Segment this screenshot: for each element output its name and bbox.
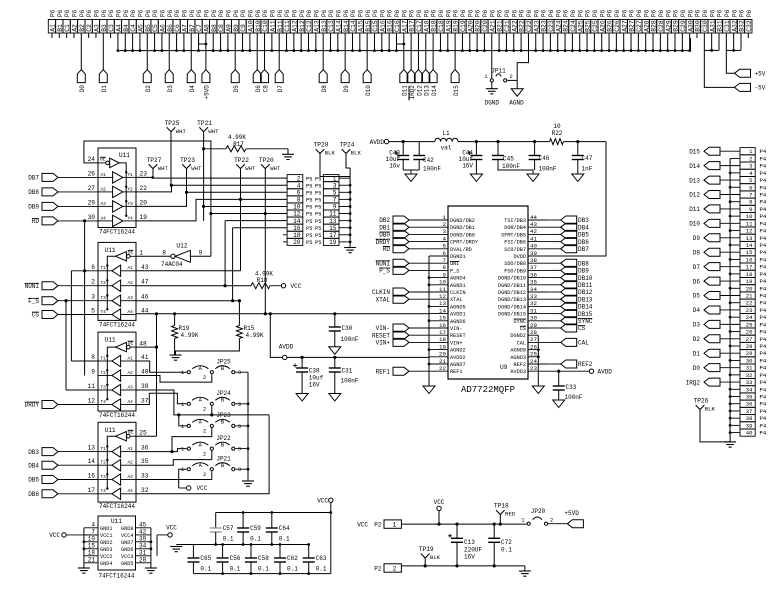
wire AVDD1 branch	[269, 312, 283, 357]
svg-text:P5: P5	[306, 176, 312, 182]
ground AGND (analog)	[509, 80, 524, 106]
svg-text:R19: R19	[179, 325, 190, 332]
power VCC right of U11	[166, 525, 177, 538]
svg-text:42: 42	[530, 228, 537, 235]
svg-text:9: 9	[91, 369, 95, 376]
svg-text:0.1: 0.1	[287, 566, 298, 573]
svg-text:D6: D6	[255, 85, 262, 93]
svg-text:AVDD1: AVDD1	[450, 312, 466, 318]
svg-text:REF1: REF1	[376, 368, 391, 375]
wire out22 to P5 pin4	[136, 132, 287, 192]
svg-text:27: 27	[530, 336, 537, 343]
svg-text:SYNC: SYNC	[514, 319, 526, 325]
capacitor C62 0.1	[274, 543, 298, 574]
ground at R19	[170, 355, 182, 360]
svg-text:AGND2: AGND2	[450, 348, 466, 354]
power VCC above rail	[434, 499, 445, 526]
svg-text:P5: P5	[315, 205, 321, 211]
svg-text:P5: P5	[315, 226, 321, 232]
svg-text:WHT: WHT	[176, 128, 187, 135]
wire pin 49 to flag D11	[403, 38, 405, 70]
svg-text:43: 43	[141, 264, 149, 271]
ground at R17	[282, 149, 294, 160]
resistor R19 4.99K pulldown	[172, 312, 199, 355]
jumper JP24	[181, 390, 241, 413]
capacitor C58 0.1	[245, 543, 269, 574]
svg-text:P6: P6	[585, 9, 592, 17]
buffer U11 block2 74FCT16244	[91, 242, 148, 328]
svg-text:U12: U12	[176, 243, 187, 250]
svg-text:P6: P6	[599, 9, 606, 17]
svg-text:4: 4	[443, 235, 447, 242]
svg-text:P6: P6	[687, 9, 694, 17]
svg-text:VCC: VCC	[197, 485, 208, 492]
svg-text:45: 45	[139, 522, 147, 529]
svg-text:C65: C65	[200, 555, 211, 562]
svg-text:8: 8	[749, 199, 752, 206]
ground at U11 right	[145, 568, 157, 573]
wire pin 14 to flag D2	[146, 38, 148, 70]
flag XTAL at U9 pin 12	[376, 295, 429, 303]
svg-text:13: 13	[746, 235, 753, 242]
svg-text:22: 22	[439, 365, 446, 372]
svg-text:P6: P6	[643, 9, 650, 17]
svg-text:P6: P6	[233, 9, 240, 17]
wire GND pins left	[83, 528, 86, 568]
svg-text:5: 5	[91, 308, 95, 315]
flag P_S at U9 pin 8	[379, 266, 429, 274]
flag +5VD	[564, 510, 583, 528]
resistor R15 4.99K pulldown	[176, 299, 264, 355]
ground under U9 right	[532, 386, 544, 394]
wire pin 44 to flag D10	[366, 38, 368, 70]
power VCC left of U11	[49, 532, 98, 539]
svg-text:AGND6: AGND6	[450, 319, 466, 325]
svg-text:44: 44	[530, 214, 537, 221]
svg-text:BLK: BLK	[430, 554, 441, 561]
svg-text:AVDD2: AVDD2	[450, 355, 466, 361]
capacitor C57 0.1	[210, 513, 234, 545]
svg-text:P6: P6	[321, 9, 328, 17]
flag DB5 input	[28, 476, 98, 484]
ground at C45/C46	[527, 174, 539, 182]
svg-text:P6: P6	[746, 9, 753, 17]
svg-text:P6: P6	[160, 9, 167, 17]
svg-text:11: 11	[746, 220, 753, 227]
svg-text:DB8: DB8	[578, 260, 589, 267]
svg-text:74FCT16244: 74FCT16244	[99, 503, 135, 510]
overline of IRQ2 label	[408, 86, 410, 101]
svg-text:P4: P4	[760, 343, 767, 350]
svg-text:TP21: TP21	[197, 120, 212, 127]
flag DB1 at U9 pin 2	[379, 223, 429, 231]
svg-text:3: 3	[238, 369, 241, 376]
svg-text:2: 2	[443, 221, 447, 228]
flag C8	[261, 70, 270, 93]
flag DB6 at U9 pin 41	[547, 238, 589, 246]
svg-text:P6: P6	[401, 9, 408, 17]
svg-text:P6: P6	[196, 9, 203, 17]
svg-text:P6: P6	[343, 9, 350, 17]
capacitor C45 100nF	[492, 140, 533, 174]
svg-text:P4: P4	[760, 314, 767, 321]
svg-text:NUNI: NUNI	[25, 283, 39, 290]
flag D3 at P4 pin 25	[693, 320, 740, 328]
svg-text:U11: U11	[105, 427, 116, 434]
flag DRDY at U9 pin 4	[376, 238, 429, 246]
svg-text:P6: P6	[306, 9, 313, 17]
svg-text:100nF: 100nF	[502, 163, 520, 170]
svg-text:30: 30	[88, 214, 96, 221]
svg-text:P6: P6	[218, 9, 225, 17]
svg-text:DB9: DB9	[28, 204, 39, 211]
svg-text:32: 32	[530, 300, 537, 307]
wire decoupling mid bus	[176, 543, 309, 546]
wire -5V pins	[704, 38, 734, 87]
wire filter mid	[458, 141, 550, 143]
svg-text:30: 30	[530, 315, 537, 322]
svg-text:P4: P4	[760, 213, 767, 220]
svg-text:DB15: DB15	[578, 311, 593, 318]
svg-text:AGND: AGND	[509, 100, 524, 107]
svg-text:P6: P6	[299, 9, 306, 17]
svg-text:9: 9	[749, 206, 752, 213]
svg-text:P4: P4	[760, 365, 767, 372]
ground at jumper bus	[242, 481, 254, 486]
flag DB7 at U9 pin 40	[547, 245, 589, 253]
svg-text:37: 37	[530, 264, 537, 271]
svg-text:P5: P5	[315, 198, 321, 204]
svg-text:17: 17	[439, 329, 446, 336]
wire F_S fanout to block3 pin11	[64, 299, 98, 390]
capacitor C31 100nF	[329, 356, 359, 401]
svg-text:RD: RD	[383, 246, 391, 253]
wire pin47 net to P5 pin14	[224, 221, 288, 288]
wire filter out to DVDD	[547, 142, 606, 256]
wire pin 53 to flag D14	[432, 38, 434, 70]
test point TP28 BLK	[314, 142, 336, 157]
svg-text:38: 38	[141, 383, 149, 390]
connector P5 (2x10 header)	[287, 175, 339, 246]
svg-text:24: 24	[530, 358, 537, 365]
svg-text:D8: D8	[693, 249, 701, 256]
svg-text:P6: P6	[50, 9, 57, 17]
svg-text:JP25: JP25	[216, 358, 231, 365]
svg-text:GND1: GND1	[100, 526, 112, 532]
svg-text:P4: P4	[760, 184, 767, 191]
svg-text:3: 3	[238, 466, 241, 473]
svg-text:10: 10	[439, 279, 446, 286]
svg-text:P6: P6	[130, 9, 137, 17]
svg-text:P6: P6	[665, 9, 672, 17]
svg-text:D4: D4	[693, 307, 701, 314]
svg-text:22: 22	[746, 300, 753, 307]
wire out40 to JP25 pin2	[136, 374, 212, 382]
svg-text:GND5: GND5	[121, 561, 133, 567]
svg-text:40: 40	[746, 430, 753, 437]
svg-text:D5: D5	[693, 293, 701, 300]
svg-text:C45: C45	[503, 155, 514, 162]
svg-text:16v: 16v	[389, 162, 400, 169]
flag DB8 at U9 pin 38	[547, 259, 589, 267]
svg-text:40: 40	[530, 243, 537, 250]
capacitor C38 10uf 16V	[293, 356, 324, 401]
svg-text:P6: P6	[489, 9, 496, 17]
svg-text:BLK: BLK	[325, 150, 336, 157]
wire jumper pin3 bus to ground	[235, 372, 249, 481]
power VCC at jumpers	[179, 485, 208, 492]
svg-text:P4: P4	[760, 408, 767, 415]
svg-text:D14: D14	[689, 163, 700, 170]
svg-text:+5VD: +5VD	[204, 85, 211, 100]
svg-text:R15: R15	[244, 325, 255, 332]
svg-text:P6: P6	[607, 9, 614, 17]
svg-text:P6: P6	[387, 9, 394, 17]
svg-text:FSI/DB6: FSI/DB6	[504, 240, 526, 246]
svg-text:P6: P6	[357, 9, 364, 17]
flag D1	[99, 70, 108, 93]
test point TP24 BLK	[340, 142, 362, 157]
capacitor C46 100nF	[529, 140, 557, 172]
svg-text:P6: P6	[717, 9, 724, 17]
flag D12 at P4 pin 7	[689, 190, 740, 198]
flag DB2 at U9 pin 1	[379, 216, 429, 224]
flag D3	[165, 70, 174, 93]
ground AGND under U9 left	[423, 386, 435, 394]
svg-text:IRQ2: IRQ2	[686, 379, 701, 386]
svg-text:35: 35	[746, 394, 753, 401]
svg-text:21: 21	[746, 293, 753, 300]
svg-text:10: 10	[88, 536, 96, 543]
svg-text:38: 38	[530, 257, 537, 264]
svg-text:JP24: JP24	[216, 390, 231, 397]
svg-text:26: 26	[88, 170, 96, 177]
svg-text:P4: P4	[760, 285, 767, 292]
svg-text:CS: CS	[32, 312, 40, 319]
jumper JP25	[181, 358, 241, 381]
svg-text:12: 12	[746, 228, 753, 235]
svg-text:13: 13	[88, 445, 96, 452]
wire OE pin24 run to U12	[84, 141, 211, 256]
svg-text:C30: C30	[342, 325, 353, 332]
svg-text:DB14: DB14	[578, 304, 593, 311]
wire out38 to JP24 pin2	[136, 390, 269, 417]
svg-text:36: 36	[746, 401, 753, 408]
svg-text:0.1: 0.1	[230, 566, 241, 573]
svg-text:C33: C33	[566, 384, 577, 391]
svg-text:P6: P6	[203, 9, 210, 17]
svg-text:P6: P6	[284, 9, 291, 17]
svg-text:D7: D7	[693, 264, 701, 271]
svg-text:0.1: 0.1	[316, 566, 327, 573]
wire pin 8 to flag D1	[102, 38, 104, 70]
svg-text:P4: P4	[760, 177, 767, 184]
svg-text:P4: P4	[760, 415, 767, 422]
flag D13 at P4 pin 5	[689, 176, 740, 184]
svg-text:14: 14	[746, 242, 753, 249]
wire out23 to P5 pin2	[136, 169, 287, 179]
svg-text:38: 38	[746, 415, 753, 422]
svg-text:CLKIN: CLKIN	[372, 289, 390, 296]
flag DB9 at U9 pin 37	[547, 266, 589, 274]
svg-text:AVDD: AVDD	[598, 368, 613, 375]
test point TP23 WHT	[180, 157, 202, 172]
svg-text:VCC: VCC	[317, 497, 328, 504]
svg-text:P6: P6	[240, 9, 247, 17]
flag DB3 input	[28, 448, 98, 456]
svg-text:2: 2	[203, 450, 206, 457]
svg-text:P4: P4	[760, 336, 767, 343]
svg-text:RED: RED	[505, 511, 516, 518]
svg-text:P6: P6	[438, 9, 445, 17]
svg-text:6: 6	[749, 184, 752, 191]
svg-text:35: 35	[141, 458, 149, 465]
wire pin46 net to P5 pin16	[231, 228, 287, 303]
flag VIN- at U9 pin 16	[376, 324, 429, 332]
svg-text:12: 12	[88, 398, 96, 405]
svg-text:P5: P5	[306, 212, 312, 218]
buffer U11 block4 74FCT16244	[88, 422, 149, 510]
svg-text:C58: C58	[258, 555, 269, 562]
svg-text:+5VD: +5VD	[564, 510, 579, 517]
svg-text:3: 3	[749, 163, 752, 170]
svg-text:P6: P6	[269, 9, 276, 17]
wire pin46 row	[136, 300, 239, 302]
wire GND pins right	[150, 528, 153, 568]
wire P2 ground rail	[401, 564, 525, 571]
svg-text:25: 25	[139, 430, 147, 437]
svg-text:C46: C46	[539, 155, 550, 162]
svg-text:33: 33	[141, 473, 149, 480]
svg-text:41: 41	[141, 354, 149, 361]
svg-text:P4: P4	[760, 422, 767, 429]
svg-text:16V: 16V	[464, 553, 475, 560]
svg-text:REF2: REF2	[514, 362, 526, 368]
svg-text:P6: P6	[533, 9, 540, 17]
svg-text:74FCT16244: 74FCT16244	[99, 321, 135, 328]
svg-text:P6: P6	[460, 9, 467, 17]
flag DB7 input	[28, 173, 98, 181]
svg-text:D10: D10	[365, 85, 372, 96]
svg-text:P6: P6	[291, 9, 298, 17]
wire stub P5 pin20	[283, 241, 287, 243]
flag DB3 at U9 pin 44	[547, 216, 589, 224]
flag D7	[275, 70, 284, 93]
svg-text:P4: P4	[760, 220, 767, 227]
svg-text:RD: RD	[32, 218, 40, 225]
svg-text:46: 46	[141, 294, 149, 301]
ground at C42/C43	[403, 170, 419, 182]
flag D6	[253, 70, 262, 93]
svg-text:P6: P6	[394, 9, 401, 17]
svg-text:SDO/DB8: SDO/DB8	[504, 261, 526, 267]
svg-text:P6: P6	[614, 9, 621, 17]
svg-text:8: 8	[91, 354, 95, 361]
svg-text:P6: P6	[592, 9, 599, 17]
svg-text:D4: D4	[189, 85, 196, 93]
svg-text:VCC2: VCC2	[100, 554, 112, 560]
wire pin 22 to flag +5VD	[205, 38, 207, 70]
wire DGND bus right of U9	[537, 335, 540, 386]
flag D11 at P4 pin 9	[689, 205, 740, 213]
svg-text:P6: P6	[541, 9, 548, 17]
svg-text:P6: P6	[511, 9, 518, 17]
svg-text:DGND/DB12: DGND/DB12	[498, 290, 526, 296]
svg-text:C8: C8	[262, 85, 269, 93]
svg-text:GND3: GND3	[100, 547, 112, 553]
svg-text:5: 5	[443, 243, 447, 250]
svg-text:DB6: DB6	[578, 239, 589, 246]
svg-text:DGND/DB15: DGND/DB15	[498, 312, 526, 318]
svg-text:P6: P6	[152, 9, 159, 17]
svg-text:P6: P6	[409, 9, 416, 17]
svg-text:TP28: TP28	[314, 142, 329, 149]
svg-text:P6: P6	[138, 9, 145, 17]
wire ground bus under connector	[117, 38, 690, 51]
svg-text:AGND7: AGND7	[450, 362, 466, 368]
svg-text:DGND/DB0: DGND/DB0	[450, 232, 475, 238]
wire +5V pins	[726, 38, 741, 73]
wire pin47 row with R18 pullup	[136, 271, 281, 289]
svg-text:39: 39	[530, 250, 537, 257]
svg-text:P4: P4	[760, 242, 767, 249]
svg-text:P6: P6	[739, 9, 746, 17]
wire pin 41 to flag D9	[344, 38, 346, 70]
flag DB10 at U9 pin 36	[547, 274, 593, 282]
jumper JP21	[181, 455, 241, 478]
svg-text:P5: P5	[306, 198, 312, 204]
svg-text:D6: D6	[693, 278, 701, 285]
svg-text:TP27: TP27	[147, 157, 162, 164]
ground at decoupling bank	[170, 547, 182, 552]
wire TP20 run	[264, 169, 266, 314]
wire pin 30 to flag C8	[264, 38, 266, 70]
svg-text:P4: P4	[760, 350, 767, 357]
flag SYNC at U9 pin 30	[547, 317, 593, 325]
svg-text:TP26: TP26	[694, 398, 709, 405]
svg-text:P6: P6	[570, 9, 577, 17]
svg-text:P6: P6	[724, 9, 731, 17]
svg-text:CS: CS	[520, 326, 526, 332]
svg-text:DB11: DB11	[578, 282, 593, 289]
svg-text:25: 25	[746, 321, 753, 328]
flag RESET at U9 pin 17	[372, 331, 429, 339]
svg-text:TP24: TP24	[340, 142, 355, 149]
flag CLKIN at U9 pin 11	[372, 288, 429, 296]
inverter U12 74AC04	[161, 243, 211, 268]
svg-text:P6: P6	[651, 9, 658, 17]
svg-text:P6: P6	[563, 9, 570, 17]
svg-text:P6: P6	[225, 9, 232, 17]
svg-text:P6: P6	[519, 9, 526, 17]
ground at U11 left	[78, 568, 90, 573]
flag D4	[187, 70, 196, 93]
wire AGND bus left of U9	[428, 256, 431, 386]
svg-text:23: 23	[530, 365, 537, 372]
svg-text:43: 43	[530, 221, 537, 228]
svg-text:WHT: WHT	[208, 128, 219, 135]
svg-text:TP18: TP18	[494, 503, 509, 510]
svg-text:DRDY: DRDY	[25, 402, 40, 409]
svg-text:GND8: GND8	[121, 526, 133, 532]
svg-text:5: 5	[749, 177, 752, 184]
svg-text:D0: D0	[693, 365, 701, 372]
svg-text:2: 2	[203, 428, 206, 435]
svg-text:P6: P6	[621, 9, 628, 17]
svg-text:P4: P4	[760, 379, 767, 386]
jumper JP11	[484, 68, 513, 83]
svg-text:D14: D14	[431, 85, 438, 96]
